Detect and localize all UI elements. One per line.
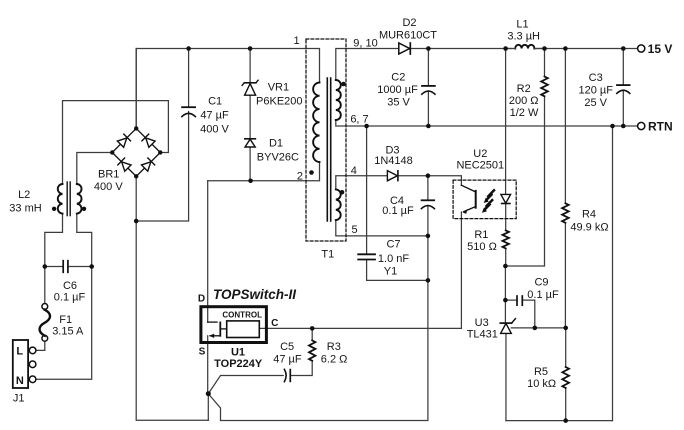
terminal 15V <box>638 45 645 52</box>
wire D1 to pin2 node <box>249 147 251 181</box>
svg-text:C5: C5 <box>280 341 294 353</box>
svg-text:U1: U1 <box>231 347 245 359</box>
resistor R4 <box>562 203 569 222</box>
svg-text:0.1 µF: 0.1 µF <box>382 205 414 217</box>
wire C3 bottom <box>622 91 624 126</box>
resistor R5 <box>562 367 569 388</box>
wire R5 bottom <box>565 388 567 421</box>
wire D2 cathode to 15V terminal <box>410 48 512 50</box>
wire R4 top <box>564 49 566 204</box>
svg-text:NEC2501: NEC2501 <box>456 159 504 171</box>
wire RTN vertical <box>612 126 614 421</box>
wire 6,7 secondary return to RTN <box>336 120 638 126</box>
svg-text:47 µF: 47 µF <box>273 354 302 366</box>
bridge rectifier BR1 <box>110 126 163 178</box>
svg-text:49.9 kΩ: 49.9 kΩ <box>570 221 608 233</box>
capacitor C7 <box>358 254 375 259</box>
resistor R3 <box>309 340 315 360</box>
svg-text:C: C <box>271 318 278 329</box>
wire R2 bottom to node A <box>505 96 544 266</box>
wire D3 cathode to U2 collector <box>398 176 462 186</box>
wire C6 right lead <box>68 266 92 268</box>
svg-text:1.0 nF: 1.0 nF <box>378 253 409 265</box>
wire secondary 9,10 to D2 <box>336 49 399 81</box>
terminal RTN <box>638 122 645 129</box>
wire R1 bottom to node A <box>505 249 507 267</box>
wire bias return down to source rail <box>208 236 428 421</box>
svg-text:35 V: 35 V <box>387 97 410 109</box>
svg-text:RTN: RTN <box>648 119 673 133</box>
svg-text:R1: R1 <box>474 229 488 241</box>
wire C3 top <box>622 49 624 86</box>
wire L2 left bottom to C6 and F1 <box>45 214 63 304</box>
wire C9 left lead <box>505 299 517 301</box>
svg-text:3.3 µH: 3.3 µH <box>507 31 540 43</box>
diode D2 <box>399 43 411 54</box>
wire source pin S <box>207 336 209 394</box>
wire U2 emitter down to control wire <box>460 212 462 328</box>
wire VR1 to D1 <box>249 95 251 139</box>
capacitor C5 <box>284 369 290 381</box>
svg-text:0.1 µF: 0.1 µF <box>54 291 86 303</box>
capacitor C2 <box>422 86 435 94</box>
resistor R1 <box>503 230 509 248</box>
svg-text:C2: C2 <box>391 71 405 83</box>
svg-text:1/2 W: 1/2 W <box>510 107 539 119</box>
wire C1 top <box>188 49 190 108</box>
svg-text:TOPSwitch-II: TOPSwitch-II <box>213 287 296 302</box>
capacitor C4 <box>421 200 434 208</box>
wire bridge top to rail <box>135 49 137 129</box>
svg-text:T1: T1 <box>321 249 334 261</box>
svg-text:47 µF: 47 µF <box>200 110 229 122</box>
svg-text:400 V: 400 V <box>94 181 123 193</box>
wire U3 reference line to divider <box>511 327 565 329</box>
resistor R2 <box>541 77 548 97</box>
wire L2 right winding to bridge left corner <box>77 153 112 185</box>
wire L2 right bottom to C6 and N terminal <box>36 214 92 380</box>
wire node A to C9 node to U3 cathode <box>504 266 506 323</box>
wire C7 top from 6,7 <box>366 126 368 254</box>
wire C1 bottom to B- node <box>136 112 188 222</box>
svg-text:L2: L2 <box>18 189 30 201</box>
svg-text:Y1: Y1 <box>384 265 397 277</box>
connector J1 <box>13 340 36 388</box>
inductor L2 common-mode choke <box>52 182 86 216</box>
optocoupler U2 <box>453 180 516 219</box>
svg-text:3.15 A: 3.15 A <box>52 325 84 337</box>
svg-text:TL431: TL431 <box>467 328 498 340</box>
svg-text:1000 µF: 1000 µF <box>377 84 418 96</box>
svg-text:D2: D2 <box>402 17 416 29</box>
svg-text:TOP224Y: TOP224Y <box>214 358 263 370</box>
svg-text:C1: C1 <box>208 96 222 108</box>
svg-text:MUR610CT: MUR610CT <box>379 30 437 42</box>
svg-text:R5: R5 <box>534 366 548 378</box>
diode D1 <box>245 139 256 147</box>
wire L2 left winding to bridge right corner <box>63 101 169 184</box>
svg-text:25 V: 25 V <box>584 97 607 109</box>
wire R4 bottom to divider node <box>564 223 566 328</box>
svg-text:2: 2 <box>297 170 303 182</box>
svg-text:VR1: VR1 <box>268 82 289 94</box>
wire R3 top <box>311 328 313 340</box>
capacitor C6 <box>63 261 68 273</box>
wire VR1 top <box>249 49 251 83</box>
wire pin 4 to D3 <box>336 176 388 190</box>
svg-text:120 µF: 120 µF <box>578 84 613 96</box>
wire C9 right lead to ref line <box>522 300 535 328</box>
wire U3 anode to secondary ground rail <box>505 333 507 420</box>
wire C2 bottom <box>427 92 429 127</box>
svg-text:U2: U2 <box>473 148 487 160</box>
svg-text:S: S <box>199 347 206 358</box>
svg-text:15 V: 15 V <box>648 42 673 56</box>
wire C6 left lead <box>45 266 63 268</box>
svg-text:200 Ω: 200 Ω <box>509 95 539 107</box>
svg-text:BYV26C: BYV26C <box>257 151 299 163</box>
diode D3 <box>387 171 398 181</box>
svg-text:R4: R4 <box>582 208 596 220</box>
wire C5 left to source node <box>208 376 283 394</box>
wire drain to TOPSwitch <box>207 181 209 322</box>
wire S node to primary return <box>207 394 209 421</box>
svg-text:D1: D1 <box>269 138 283 150</box>
wire CONTROL pin C to opto emitter <box>259 327 461 329</box>
TOPSwitch U1 block <box>201 307 267 343</box>
svg-text:N: N <box>16 375 24 387</box>
svg-text:400 V: 400 V <box>200 124 229 136</box>
svg-text:C6: C6 <box>63 280 77 292</box>
svg-text:L1: L1 <box>516 18 528 30</box>
wire secondary ground rail <box>506 420 613 422</box>
wire U2 LED cathode to R1 <box>505 204 507 231</box>
svg-text:1: 1 <box>293 35 299 47</box>
svg-text:U3: U3 <box>475 317 489 329</box>
svg-text:10 kΩ: 10 kΩ <box>527 378 556 390</box>
wire F1 to J1 L terminal <box>36 341 45 350</box>
svg-text:R2: R2 <box>517 83 531 95</box>
svg-text:C3: C3 <box>589 72 603 84</box>
svg-text:4: 4 <box>351 165 357 177</box>
svg-text:R3: R3 <box>327 341 341 353</box>
wire B- down to primary return rail <box>136 221 208 420</box>
svg-text:6.2 Ω: 6.2 Ω <box>321 353 348 365</box>
zener VR1 <box>242 80 258 95</box>
svg-text:D: D <box>198 294 205 305</box>
svg-text:9, 10: 9, 10 <box>353 37 377 49</box>
transformer T1 <box>306 39 346 241</box>
svg-text:CONTROL: CONTROL <box>222 311 262 320</box>
wire pin 2 / drain node <box>208 162 320 181</box>
svg-text:L: L <box>16 345 23 357</box>
svg-text:C7: C7 <box>386 238 400 250</box>
shunt regulator U3 TL431 <box>500 319 515 334</box>
wire R5 top <box>565 328 567 367</box>
svg-text:0.1 µF: 0.1 µF <box>527 289 559 301</box>
wire C4 bottom <box>427 206 429 236</box>
wire C4 top <box>427 176 429 201</box>
capacitor C1 <box>182 107 195 116</box>
wire R3 bottom to C5 <box>290 361 312 376</box>
svg-text:1N4148: 1N4148 <box>374 155 413 167</box>
svg-text:BR1: BR1 <box>98 168 119 180</box>
wire C7 bottom to bias return <box>367 260 428 281</box>
capacitor C9 <box>517 296 522 305</box>
svg-text:33 mH: 33 mH <box>9 203 41 215</box>
wire primary top rail B+ <box>136 49 319 129</box>
wire U2 LED anode from rail <box>505 49 507 195</box>
inductor L1 <box>515 45 534 49</box>
svg-text:F1: F1 <box>59 314 72 326</box>
fuse F1 <box>40 304 51 342</box>
svg-text:P6KE200: P6KE200 <box>256 96 302 108</box>
wire bridge bottom to B- <box>135 176 137 221</box>
capacitor C3 <box>617 85 630 93</box>
wire C2 top <box>427 49 429 86</box>
wire R2 top <box>544 49 546 77</box>
svg-text:510 Ω: 510 Ω <box>467 241 497 253</box>
svg-text:J1: J1 <box>13 393 25 405</box>
svg-text:5: 5 <box>351 224 357 236</box>
svg-text:6, 7: 6, 7 <box>350 113 368 125</box>
wire pin 5 <box>336 220 428 236</box>
svg-text:C9: C9 <box>534 276 548 288</box>
